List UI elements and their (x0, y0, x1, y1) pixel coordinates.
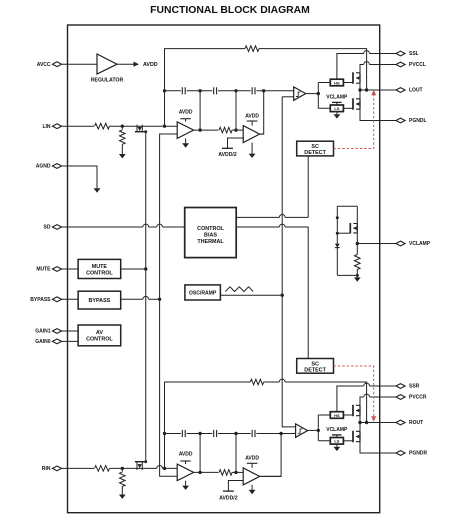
op-amp A4 (right channel) (243, 468, 259, 485)
svg-text:BYPASS: BYPASS (89, 298, 111, 304)
node cap row junction 1 (163, 89, 166, 92)
wire GAIN1 to AV control (62, 330, 79, 332)
node LIN shunt junction (121, 125, 124, 128)
svg-text:LIN: LIN (42, 124, 50, 130)
transistor vclamp FET (337, 223, 357, 233)
wire hop RIN over bypass rail (157, 465, 163, 468)
svg-text:REGULATOR: REGULATOR (91, 78, 124, 84)
node comparator 1 output junction (317, 92, 320, 95)
wire regulator output with arrow (117, 62, 139, 67)
hysteresis mark comparator 2 (298, 429, 302, 433)
svg-text:GAIN0: GAIN0 (35, 339, 51, 345)
ground (LIN shunt) (119, 154, 126, 158)
arrow SC sense to ROUT (red) (371, 416, 376, 422)
svg-text:THERMAL: THERMAL (197, 239, 224, 245)
svg-text:OSC/RAMP: OSC/RAMP (189, 291, 217, 297)
transistor high-side FET (right) (343, 405, 360, 416)
node LIN op-amp input junction (163, 125, 166, 128)
wire hop control line over osc rail (lower) (279, 224, 285, 227)
vclamp generator top rail (337, 205, 357, 207)
pin RIN (42, 466, 62, 472)
svg-text:AGND: AGND (36, 164, 51, 170)
resistor interstage (right) (219, 470, 232, 476)
svg-text:RIN: RIN (42, 466, 51, 472)
wire cap junction to op-amp A3 output (199, 434, 201, 473)
wire low-side source to PGNDL (360, 109, 396, 120)
wire RIN input (62, 467, 94, 469)
pin SSL (396, 51, 419, 57)
wire low-side drain to LOUT node (359, 90, 361, 99)
wire osc output (220, 294, 282, 296)
svg-text:AVDD: AVDD (245, 456, 259, 462)
node cap row junction 2 (198, 89, 201, 92)
resistor LIN series (95, 123, 110, 129)
wire cap vertical to LIN line (164, 91, 166, 126)
wire vclamp FET source to node (356, 233, 358, 244)
node cap row right junction 3 (234, 432, 237, 435)
reference AVDD/2 (left) (218, 148, 236, 158)
node cap row right junction 1 (163, 432, 166, 435)
wire low-side source to PGNDR (360, 442, 396, 453)
osc/ramp box (185, 285, 221, 300)
svg-text:AVDD: AVDD (143, 62, 158, 68)
resistor LIN shunt to ground (120, 126, 126, 154)
wire op-amp A1 output (194, 129, 219, 131)
wire vclamp bottom rail (337, 274, 357, 276)
wire AGND (62, 166, 97, 188)
node vclamp ground junction (356, 274, 359, 277)
node vclamp gate junction (336, 232, 339, 235)
node cap row right junction 4 (279, 432, 282, 435)
wire mute control output (121, 268, 146, 270)
wire resistor to op-amp A2 (232, 129, 243, 131)
pin AVCC (37, 62, 62, 68)
svg-text:VCLAMP: VCLAMP (326, 427, 348, 433)
svg-text:LS: LS (334, 439, 339, 444)
svg-text:AVDD: AVDD (179, 452, 193, 458)
wire feedback to LOUT node (259, 49, 367, 90)
hysteresis mark comparator 1 (296, 92, 300, 96)
svg-text:BIAS: BIAS (204, 233, 217, 239)
wire GAIN0 to AV control (62, 340, 79, 342)
svg-text:CONTROL: CONTROL (86, 270, 113, 276)
pin LIN (42, 124, 61, 130)
node RIN shunt junction (121, 467, 124, 470)
power label AVDD (op-amp A3) (179, 452, 193, 464)
wire cap junction 3 to op-amp2 input (235, 91, 237, 130)
resistor interstage (left) (219, 127, 232, 133)
node ROUT feedback junction (365, 421, 368, 424)
wire op-amp A4 output (260, 475, 282, 477)
svg-text:PGNDL: PGNDL (409, 118, 427, 124)
wire cap junction to op-amp A4 output (260, 434, 282, 477)
power label AVDD (op-amp A2) (245, 113, 259, 125)
AV control box (78, 325, 121, 346)
SC detect box (left) (297, 141, 334, 156)
SC detect box (right) (297, 359, 334, 374)
node osc rail junction (281, 294, 284, 297)
ground (AGND) (94, 188, 101, 192)
pin SD (44, 225, 62, 231)
svg-text:PVCCR: PVCCR (409, 395, 427, 401)
wire LIN input (62, 125, 94, 127)
pin SSR (396, 384, 420, 390)
capacitor C6 (right) (252, 430, 255, 437)
wire osc to comparator 1 inverting input (282, 96, 294, 98)
pin AGND (36, 164, 62, 170)
node comparator 2 output junction (317, 429, 320, 432)
pin PVCCL (396, 62, 426, 68)
wire op-amp A2 inverting input to AVDD/2 (228, 138, 244, 148)
waveform ramp symbol (225, 287, 253, 292)
wire bypass output (121, 298, 160, 300)
ground (LS driver right) (334, 444, 341, 451)
wire cap vertical to RIN line (164, 434, 166, 469)
node op-amp A2 input junction (234, 128, 237, 131)
node cap row right junction 2 (198, 432, 201, 435)
svg-text:BYPASS: BYPASS (30, 297, 51, 303)
ground (vclamp) (354, 275, 361, 281)
node ROUT switching junction (358, 421, 361, 424)
comparator 1 (left PWM) (294, 87, 306, 100)
wire RIN to op-amp (110, 467, 178, 469)
capacitor C1 (left) (182, 87, 185, 94)
wire op-amp A1 inverting input from bypass rail (160, 133, 178, 135)
wire ROUT to pin (360, 422, 396, 424)
wire hop SSR over feedback (364, 383, 370, 386)
wire SC detect (right) sense path (red dashed) (334, 366, 374, 417)
svg-text:AVDD/2: AVDD/2 (218, 152, 236, 158)
svg-text:LOUT: LOUT (409, 88, 423, 94)
pin BYPASS (30, 297, 61, 303)
svg-text:AVCC: AVCC (37, 62, 51, 68)
wire resistor to op-amp A4 (232, 471, 243, 473)
pin ROUT (396, 420, 423, 426)
transistor mute switch (left channel) (135, 125, 146, 132)
wire SC detect (left) down to control (307, 156, 309, 218)
wire hop bypass over mute rail (143, 296, 149, 299)
node op-amp A1 output junction (198, 128, 201, 131)
svg-text:LS: LS (334, 106, 339, 111)
svg-text:SSL: SSL (409, 51, 419, 57)
wire cap junction to op-amp A4 input (235, 434, 237, 473)
svg-text:PGNDR: PGNDR (409, 451, 427, 457)
wire op-amp A4 inverting input to AVDD/2 (228, 481, 243, 492)
wire cap junction 2 to op-amp1 output (199, 91, 201, 130)
wire hop SSL over feedback (364, 51, 370, 54)
wire hop feedback over osc rail (279, 379, 285, 382)
wire hop SD over bypass rail (157, 224, 163, 227)
wire comparator output to HS/LS drivers (left) (318, 83, 330, 109)
wire feedback left channel (LOUT to input caps) (165, 49, 246, 91)
wire vclamp FET drain (356, 206, 358, 223)
ground (op-amp A2) (249, 143, 256, 158)
reference AVDD/2 (right) (219, 491, 237, 501)
capacitor C4 (right) (182, 430, 185, 437)
node mute rail junction (144, 267, 147, 270)
wire vclamp left rail (336, 206, 338, 275)
wire osc rail vertical (282, 97, 295, 427)
IC boundary box (68, 25, 380, 513)
wire vclamp output to pin (357, 243, 396, 245)
transistor high-side FET (left) (343, 72, 360, 83)
wire high-side source to LOUT node (359, 83, 361, 90)
pin PGNDL (396, 118, 427, 124)
pin LOUT (396, 88, 423, 94)
comparator 2 (right PWM) (296, 424, 308, 437)
svg-text:ROUT: ROUT (409, 420, 423, 426)
svg-text:SD: SD (44, 225, 51, 231)
ground (op-amp A1) (182, 138, 189, 147)
capacitor C5 (right) (214, 430, 217, 437)
wire op-amp A3 output (194, 471, 219, 473)
svg-text:DETECT: DETECT (304, 367, 326, 373)
pin VCLAMP (396, 241, 431, 247)
node cap row junction 3 (234, 89, 237, 92)
svg-text:DETECT: DETECT (304, 150, 326, 156)
wire low-side drain to ROUT node (359, 423, 361, 432)
svg-text:MUTE: MUTE (36, 267, 51, 273)
capacitor C2 (left) (214, 87, 217, 94)
ground (LS driver left) (334, 112, 341, 119)
wire mute rail vertical (145, 132, 147, 462)
wire SC detect (left) sense path (red dashed) (334, 95, 374, 149)
node mute gate junction (right) (144, 460, 147, 463)
capacitor C3 (left) (252, 87, 255, 94)
wire bootstrap SSL (337, 54, 364, 80)
svg-text:AVDD: AVDD (179, 109, 193, 115)
resistor feedback right channel (250, 379, 263, 385)
ground (RIN shunt) (119, 495, 126, 499)
svg-text:AVDD: AVDD (245, 113, 259, 119)
svg-text:HS: HS (334, 413, 340, 418)
bypass box (78, 291, 121, 309)
wire high-side source to ROUT node (359, 416, 361, 423)
svg-text:AV: AV (96, 330, 103, 336)
node mute gate junction (left) (144, 130, 147, 133)
ground (op-amp A4) (249, 485, 256, 494)
pin GAIN0 (35, 339, 61, 345)
wire op-amp A2 output up to cap row (260, 133, 264, 135)
wire comparator output to HS/LS drivers (right) (318, 415, 330, 441)
pin PVCCR (396, 395, 427, 401)
svg-text:AVDD/2: AVDD/2 (219, 495, 237, 501)
gate driver HS box (left) (330, 79, 343, 86)
node bypass rail junction (158, 298, 161, 301)
power label AVDD (op-amp A4) (245, 456, 259, 468)
power label AVDD (op-amp A1) (179, 109, 193, 121)
control bias thermal box U2 (185, 208, 237, 258)
wire BYPASS pin to bypass box (62, 298, 79, 300)
wire LOUT to pin (360, 89, 396, 91)
svg-text:CONTROL: CONTROL (86, 336, 113, 342)
label VCLAMP driver supply (right) (326, 427, 348, 438)
wire control to SC detect right (236, 227, 308, 359)
pin PGNDR (396, 451, 428, 457)
svg-text:HS: HS (334, 80, 340, 85)
resistor RIN series (95, 466, 110, 472)
wire comparator 1 output (306, 93, 319, 95)
transistor low-side FET (left) (343, 98, 360, 109)
label VCLAMP driver supply (left) (326, 94, 348, 105)
transistor low-side FET (right) (343, 431, 360, 442)
wire LIN to op-amp (110, 125, 178, 127)
regulator U1 (91, 54, 124, 84)
mute control box (78, 259, 121, 278)
wire MUTE pin to mute control (62, 268, 79, 270)
wire hop control line over osc rail (upper) (279, 214, 285, 217)
wire supply PVCCR (360, 397, 364, 405)
node RIN op-amp input junction (163, 467, 166, 470)
node vclamp output (356, 242, 359, 245)
op-amp A2 (left channel) (243, 126, 259, 143)
node LOUT feedback junction (365, 88, 368, 91)
wire AVCC to regulator (62, 63, 97, 65)
pin MUTE (36, 267, 61, 273)
wire hop PVCCL over feedback (364, 62, 370, 65)
node cap row junction 4 (262, 89, 265, 92)
node op-amp A3 output junction (198, 471, 201, 474)
svg-text:SSR: SSR (409, 384, 420, 390)
wire SD input (62, 226, 185, 228)
wire hop SD over mute rail (143, 224, 149, 227)
svg-text:VCLAMP: VCLAMP (326, 94, 348, 100)
svg-text:VCLAMP: VCLAMP (409, 241, 431, 247)
wire feedback to ROUT node (264, 382, 367, 423)
node LOUT switching junction (358, 88, 361, 91)
svg-text:MUTE: MUTE (92, 264, 108, 270)
svg-text:PVCCL: PVCCL (409, 62, 426, 68)
op-amp A3 (right channel input amp) (177, 464, 193, 481)
op-amp A1 (left channel input amp) (177, 122, 193, 139)
wire bootstrap SSR (337, 386, 364, 412)
ground (op-amp A3) (182, 481, 189, 490)
arrow SC sense to LOUT (red) (371, 90, 376, 96)
wire comparator 2 output (308, 429, 319, 431)
svg-text:FUNCTIONAL BLOCK DIAGRAM: FUNCTIONAL BLOCK DIAGRAM (150, 5, 310, 16)
wire supply PVCCL (360, 65, 364, 73)
wire feedback right channel (165, 382, 251, 434)
transistor mute switch (right channel) (135, 462, 146, 470)
resistor RIN shunt to ground (120, 468, 126, 494)
wire hop PVCCR over feedback (364, 394, 370, 397)
gate driver LS box (left) (330, 105, 343, 112)
diode zener (vclamp) (335, 244, 340, 248)
resistor feedback left channel (245, 46, 259, 52)
pin GAIN1 (35, 329, 61, 335)
resistor vclamp to ground (355, 244, 361, 276)
wire control to SC detect left (236, 216, 308, 218)
wire cap junction 4 to op-amp2 output (260, 91, 264, 134)
wire cap row left channel (165, 90, 294, 92)
gate driver LS box (right) (330, 438, 343, 445)
wire cap row right channel (165, 433, 296, 435)
wire bypass rail vertical (160, 134, 178, 476)
node op-amp A4 input junction (234, 471, 237, 474)
node vclamp gate junction upper (336, 216, 339, 219)
svg-text:CONTROL: CONTROL (197, 226, 224, 232)
svg-text:GAIN1: GAIN1 (35, 329, 51, 335)
gate driver HS box (right) (330, 412, 343, 419)
